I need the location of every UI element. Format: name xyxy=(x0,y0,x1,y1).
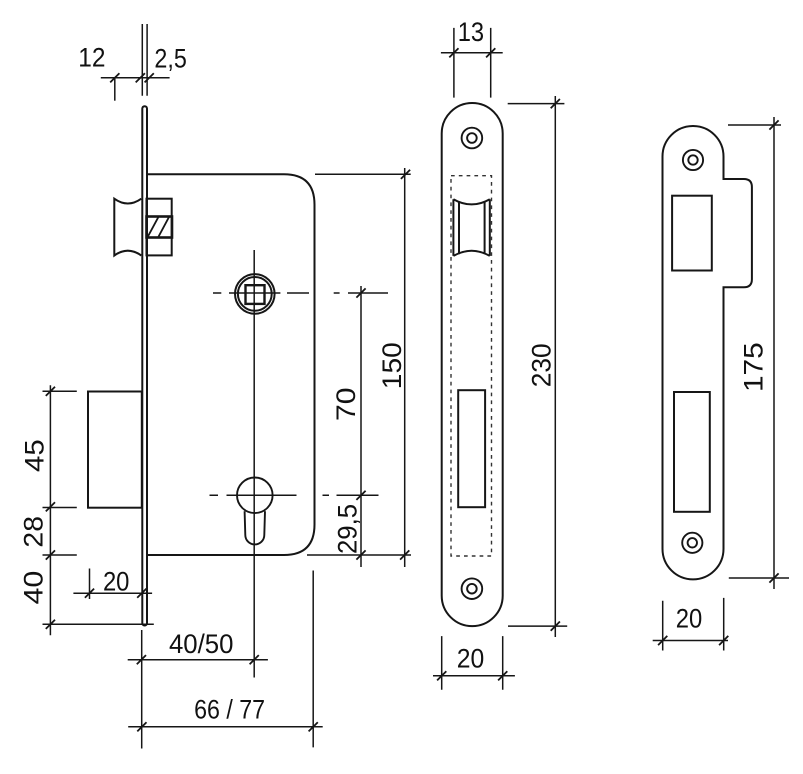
dim line 20 (deadbolt backset) xyxy=(73,592,152,594)
left column dim line (45/28/40) xyxy=(49,385,51,635)
deadbolt side view xyxy=(88,392,142,508)
tick y=624.3 xyxy=(46,620,55,629)
svg-text:20: 20 xyxy=(457,643,485,673)
screw hole bottom xyxy=(682,533,702,553)
tick y=554.5 xyxy=(46,550,55,559)
dim line 175 (strike plate height) xyxy=(773,117,775,589)
tick 175 bottom xyxy=(769,573,778,582)
dim line 150 (case height) xyxy=(404,168,406,567)
tick 40/50 right xyxy=(250,655,259,664)
tick 66/77 left xyxy=(137,722,146,731)
svg-text:13: 13 xyxy=(458,17,484,47)
svg-text:150: 150 xyxy=(377,342,407,389)
keyhole slot xyxy=(245,511,265,544)
tick 20 left xyxy=(658,636,667,645)
latch housing inside body xyxy=(147,199,172,256)
svg-text:175: 175 xyxy=(739,342,769,392)
latch hatch diagonals xyxy=(148,217,169,237)
faceplate side view (double line) xyxy=(142,106,147,625)
svg-text:20: 20 xyxy=(676,604,703,634)
svg-text:28: 28 xyxy=(18,516,48,548)
dim line 20 (strike plate width) xyxy=(653,640,728,642)
dim line top (12 / 2,5) xyxy=(101,77,170,79)
ext lines 13 xyxy=(454,28,491,98)
dashed lock-body rectangle xyxy=(451,176,492,556)
tick y=391 xyxy=(46,387,55,396)
latch hatch box xyxy=(147,217,173,238)
svg-text:230: 230 xyxy=(526,343,556,387)
dim line 13 (latch width) xyxy=(441,52,503,54)
dim line 66 / 77 (case depth) xyxy=(128,726,323,728)
screw hole top xyxy=(683,150,703,170)
tick plate left xyxy=(136,73,145,82)
ext lines 230 xyxy=(508,104,568,627)
svg-text:66 / 77: 66 / 77 xyxy=(194,695,265,725)
screw hole bottom xyxy=(462,578,483,599)
svg-text:40: 40 xyxy=(18,571,48,605)
ext line 20 left xyxy=(89,569,91,600)
spindle hub inner circle xyxy=(238,277,272,311)
tick 13 left xyxy=(449,48,458,57)
svg-text:45: 45 xyxy=(19,439,49,472)
tick 150 top xyxy=(401,170,410,179)
screw hole top xyxy=(462,128,483,149)
svg-text:29,5: 29,5 xyxy=(333,504,363,554)
spindle hub outer circle xyxy=(235,274,275,314)
tick 66/77 right xyxy=(309,722,318,731)
deadbolt slot xyxy=(458,390,485,507)
ext lines above faceplate xyxy=(142,24,147,96)
ext segs left xyxy=(43,391,154,624)
latch bolt (protruding) xyxy=(114,199,141,256)
vertical centre line through hub and keyhole xyxy=(253,250,255,678)
tick 20 left xyxy=(437,671,446,680)
svg-text:12: 12 xyxy=(78,43,105,73)
tick 150 bottom xyxy=(400,550,409,559)
dim line 230 (faceplate height) xyxy=(554,96,556,637)
tick 40/50 left xyxy=(137,655,146,664)
ext below plate xyxy=(141,630,143,749)
latch front view xyxy=(453,199,489,256)
spindle square follower xyxy=(246,285,265,304)
tick 20 right xyxy=(498,671,507,680)
ext lines 20 xyxy=(663,598,724,651)
tick 20 left xyxy=(85,589,94,598)
tick 70 top (hub centre) xyxy=(356,288,365,297)
ext body bottom right xyxy=(307,554,411,556)
dim line 70 / 29,5 xyxy=(360,286,362,567)
svg-text:70: 70 xyxy=(331,387,361,421)
ext body top right xyxy=(315,173,411,175)
tick 175 top xyxy=(769,120,778,129)
ext lines 20 xyxy=(442,636,503,690)
dim line 20 (faceplate width) xyxy=(433,675,515,677)
tick y=507 xyxy=(46,502,55,511)
tick 29,5 bottom (case bottom) xyxy=(356,550,365,559)
svg-text:2,5: 2,5 xyxy=(154,44,186,74)
svg-text:20: 20 xyxy=(103,566,130,596)
ext body right bottom xyxy=(312,571,314,748)
tick 70 bottom / 29,5 top (keyhole centre) xyxy=(356,491,365,500)
tick plate right xyxy=(145,73,154,82)
strike plate outline with lip xyxy=(663,126,752,579)
tick 20 right xyxy=(719,636,728,645)
latch opening xyxy=(672,196,712,271)
tick 20 right xyxy=(137,589,146,598)
keyhole circle xyxy=(237,478,273,514)
tick 230 top xyxy=(551,99,560,108)
tick 230 bottom xyxy=(551,622,560,631)
hub horizontal centre line (dash-dot) xyxy=(213,292,388,294)
lock body outline xyxy=(147,174,315,555)
keyhole horizontal centre line (dash-dot) xyxy=(210,494,379,496)
tick 13 right xyxy=(486,48,495,57)
deadbolt opening xyxy=(674,392,710,512)
ext line below 12 tick xyxy=(114,78,116,101)
svg-text:40/50: 40/50 xyxy=(169,629,234,659)
tick 12 left xyxy=(110,73,119,82)
faceplate stadium outline xyxy=(442,103,503,626)
dim line 40/50 (backset) xyxy=(128,659,268,661)
ext lines 175 xyxy=(728,125,789,578)
